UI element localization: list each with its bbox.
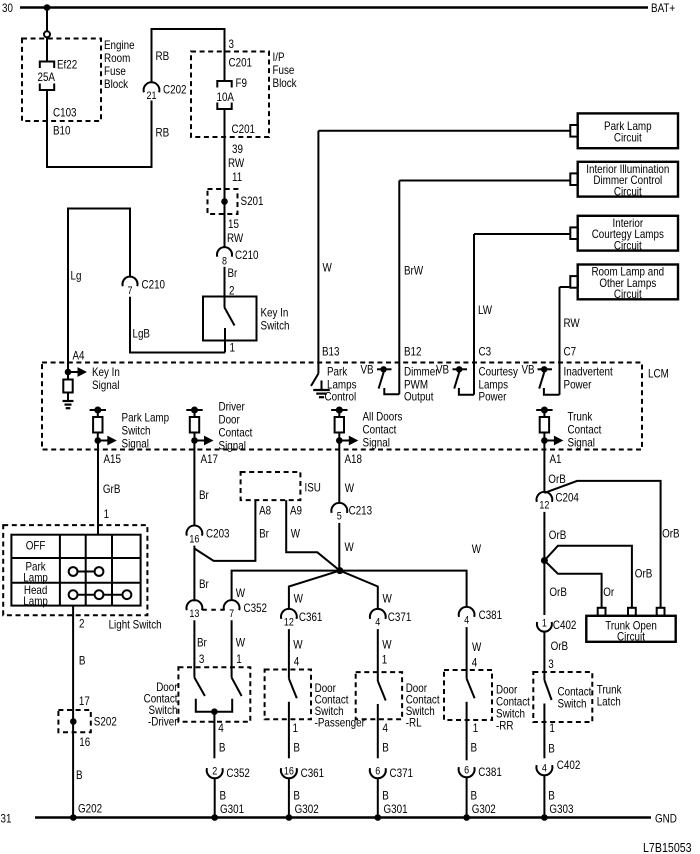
svg-text:Circuit: Circuit	[614, 287, 642, 301]
wire node to C352-7	[232, 571, 340, 601]
label 1 trunk	[549, 721, 555, 735]
svg-text:C201: C201	[229, 56, 253, 70]
svg-text:16: 16	[189, 533, 199, 545]
connector C381 pin 6	[459, 765, 475, 778]
label Park Lamps Control	[325, 365, 357, 404]
svg-text:C210: C210	[142, 278, 166, 292]
splice S201 junction	[221, 198, 228, 205]
node park lamp switch signal	[95, 437, 102, 444]
label Br driver	[197, 636, 207, 650]
label C210 right	[235, 248, 259, 262]
svg-text:GrB: GrB	[103, 482, 121, 496]
svg-text:Contact: Contact	[363, 423, 397, 437]
svg-text:W: W	[293, 638, 303, 652]
label W rl	[382, 638, 392, 652]
svg-text:W: W	[291, 527, 301, 541]
switch blade driver right	[232, 678, 242, 697]
block trunk open circuit	[586, 608, 675, 644]
svg-text:B12: B12	[404, 345, 422, 359]
svg-text:S202: S202	[94, 715, 117, 729]
svg-text:B: B	[76, 768, 83, 782]
svg-text:25A: 25A	[38, 70, 56, 84]
svg-text:C210: C210	[235, 248, 259, 262]
label Park Lamp row	[23, 560, 48, 585]
svg-text:2: 2	[79, 617, 85, 631]
svg-text:Fuse: Fuse	[273, 63, 295, 77]
wire to node A17	[194, 433, 196, 441]
svg-text:VB: VB	[436, 363, 449, 377]
wire C352-2 to G301	[214, 778, 216, 817]
label LCM	[648, 367, 669, 381]
label 3 driver	[199, 652, 205, 666]
light switch head contacts	[69, 590, 132, 599]
key in switch pin2 stub	[224, 297, 226, 308]
door contact switch RR box	[444, 670, 492, 720]
svg-text:I/P: I/P	[273, 50, 285, 64]
label Lg	[71, 269, 82, 283]
label C201 lower	[232, 122, 256, 136]
svg-text:1: 1	[382, 653, 388, 667]
svg-text:21: 21	[147, 90, 157, 102]
svg-text:Dimmer: Dimmer	[404, 365, 439, 379]
svg-text:C203: C203	[206, 527, 230, 541]
wire into fuse Ef22	[46, 37, 48, 61]
wire C3 bracket	[459, 388, 474, 395]
svg-text:C3: C3	[479, 345, 492, 359]
svg-text:OrB: OrB	[548, 472, 566, 486]
svg-text:B: B	[219, 741, 226, 755]
wire C402 to G303	[543, 775, 545, 817]
label VB c7	[522, 363, 535, 377]
svg-text:G202: G202	[78, 802, 102, 816]
connector C352 link	[202, 609, 224, 611]
svg-text:LCM: LCM	[648, 367, 669, 381]
wire B13 park lamps control	[318, 131, 570, 374]
vb feed c7	[538, 366, 553, 372]
label 1 passenger	[293, 721, 299, 735]
svg-text:OrB: OrB	[662, 527, 680, 541]
label 4 passenger	[294, 655, 300, 669]
svg-text:W: W	[383, 592, 393, 606]
wire B10 down and right	[47, 90, 152, 167]
wire trunk contact	[543, 704, 545, 759]
label 39	[232, 142, 243, 156]
svg-text:1: 1	[230, 341, 236, 355]
svg-text:Room: Room	[104, 51, 130, 65]
svg-text:12: 12	[539, 500, 549, 512]
label G302 passenger	[295, 802, 319, 816]
wire to node A1	[543, 433, 545, 441]
svg-text:All Doors: All Doors	[363, 410, 403, 424]
label Contact Switch	[558, 685, 592, 711]
svg-text:VB: VB	[361, 363, 374, 377]
ground key in	[63, 393, 74, 409]
svg-text:4: 4	[375, 617, 380, 629]
label ISU	[305, 481, 321, 495]
label B rr lower	[471, 789, 478, 803]
svg-text:A17: A17	[201, 452, 219, 466]
label RW upper	[228, 156, 245, 170]
svg-text:W: W	[323, 261, 333, 275]
label W c381 upper	[472, 542, 482, 556]
wire light switch to S202	[72, 606, 74, 818]
svg-text:C371: C371	[390, 766, 414, 780]
svg-text:Output: Output	[404, 390, 434, 404]
wire top bracket	[152, 29, 225, 83]
svg-text:Courtesy: Courtesy	[479, 365, 518, 379]
fuse Ef22 25A	[40, 62, 54, 91]
label C203	[206, 527, 230, 541]
node all doors contact signal	[336, 437, 343, 444]
label W driver	[236, 636, 246, 650]
svg-text:1: 1	[542, 618, 547, 630]
connector C402 pin 1	[537, 618, 552, 632]
label C402 upper	[553, 618, 577, 632]
svg-text:G302: G302	[472, 802, 496, 816]
label C7	[564, 345, 577, 359]
label B trunk upper	[548, 742, 555, 756]
svg-text:B: B	[220, 789, 227, 803]
wire node to C381	[340, 571, 467, 607]
connector C371 pin 6	[370, 766, 386, 779]
svg-text:G301: G301	[220, 802, 244, 816]
svg-text:W: W	[472, 640, 482, 654]
wire A1 to C204	[543, 441, 545, 493]
ground B13	[313, 381, 330, 398]
label G303	[549, 802, 573, 816]
svg-text:Br: Br	[228, 266, 238, 280]
light switch outer box	[3, 525, 147, 615]
svg-text:A9: A9	[290, 504, 302, 518]
label Door Contact Switch Driver	[144, 680, 178, 729]
label C361 upper	[299, 610, 323, 624]
feed trunk contact	[536, 407, 552, 418]
label Courtesy Lamps Power	[479, 365, 518, 404]
connector C210 pin 7	[123, 277, 138, 297]
svg-text:Br: Br	[199, 577, 209, 591]
feed driver door contact	[186, 407, 202, 418]
label C352 upper	[244, 601, 268, 615]
wire C213 to node	[338, 523, 340, 571]
svg-text:G302: G302	[295, 802, 319, 816]
label RW right	[564, 316, 581, 330]
resistor key in	[63, 372, 72, 393]
wire key switch to C210-7	[130, 297, 225, 353]
switch B12 blade	[379, 372, 384, 388]
svg-text:Driver: Driver	[219, 400, 245, 414]
connector C352 pin 13	[187, 600, 203, 620]
node key in signal	[65, 369, 72, 376]
label W c371 upper	[383, 592, 393, 606]
label B rl lower	[382, 789, 389, 803]
label RB upper	[156, 49, 170, 63]
svg-text:C381: C381	[478, 765, 502, 779]
connector ring at fuse block	[44, 31, 50, 37]
label B upper left	[79, 654, 86, 668]
wire C7 inadvertent power	[560, 287, 571, 395]
label 1 driver	[236, 652, 242, 666]
svg-text:RW: RW	[228, 156, 245, 170]
label W c361 upper	[294, 592, 304, 606]
label 15	[228, 217, 239, 231]
wire C204 to trunk node	[543, 512, 545, 561]
vb feed c3	[453, 366, 468, 372]
label Trunk Contact Signal	[568, 410, 602, 450]
label 1 light switch	[104, 507, 110, 521]
svg-text:3: 3	[229, 37, 235, 51]
label B lower left	[76, 768, 83, 782]
label 25A	[38, 70, 56, 84]
label 10A	[217, 90, 235, 104]
svg-text:B: B	[548, 789, 555, 803]
label 4 rr	[472, 656, 478, 670]
wire C371 to G301	[377, 778, 379, 817]
door contact switch driver box	[178, 667, 250, 722]
svg-text:C352: C352	[226, 766, 250, 780]
label LgB	[133, 327, 151, 341]
svg-text:C103: C103	[53, 106, 77, 120]
label RW lower	[227, 231, 244, 245]
svg-text:11: 11	[232, 170, 242, 184]
wire trunk node branch 2	[544, 546, 632, 608]
label RB lower	[156, 126, 170, 140]
label A8	[259, 504, 271, 518]
svg-text:B10: B10	[53, 124, 71, 138]
label L7B15053	[643, 840, 692, 854]
svg-text:Power: Power	[479, 390, 507, 404]
svg-text:Switch: Switch	[558, 697, 587, 711]
door contact switch passenger box	[265, 670, 311, 720]
svg-text:1: 1	[104, 507, 110, 521]
svg-text:Switch: Switch	[122, 424, 151, 438]
svg-text:Fuse: Fuse	[104, 64, 126, 78]
connector C381 pin 4	[459, 607, 475, 627]
svg-text:W: W	[236, 636, 246, 650]
switch C3 blade	[454, 372, 459, 388]
resistor park lamp switch	[93, 417, 102, 433]
label Inadvertent Power	[564, 365, 614, 392]
svg-text:Control: Control	[325, 390, 357, 404]
svg-text:W: W	[345, 481, 355, 495]
node 31 ground bus	[1, 812, 652, 826]
label OrB above c402	[549, 585, 567, 599]
svg-text:B: B	[382, 789, 389, 803]
svg-text:B: B	[382, 741, 389, 755]
svg-text:4: 4	[472, 656, 478, 670]
trunk latch box	[533, 672, 592, 722]
label G301 driver	[220, 802, 244, 816]
junction driver door	[211, 708, 218, 715]
svg-text:B: B	[471, 741, 478, 755]
label C381 lower	[478, 765, 502, 779]
label Door Contact Switch RR	[496, 683, 530, 733]
svg-text:Circuit: Circuit	[614, 238, 642, 252]
key in switch contact	[224, 328, 226, 353]
arrow all doors contact signal	[339, 436, 358, 446]
resistor trunk contact	[540, 417, 549, 433]
wire C7 bracket	[544, 388, 560, 395]
svg-text:C402: C402	[557, 758, 581, 772]
block interior courtegy lamps circuit	[570, 216, 678, 253]
svg-text:LgB: LgB	[133, 327, 151, 341]
label OrB a1	[548, 472, 566, 486]
label A17	[201, 452, 219, 466]
wire branch to ISU A8	[194, 500, 255, 561]
wire C210-7 up and left to A4	[68, 209, 130, 363]
node trunk contact signal	[541, 437, 548, 444]
label OFF	[26, 539, 46, 553]
resistor all doors contact	[335, 417, 344, 433]
svg-text:6: 6	[375, 766, 380, 778]
light switch park contacts	[69, 567, 104, 576]
svg-text:Block: Block	[104, 77, 129, 91]
wire C371 to RL door	[377, 629, 379, 681]
svg-text:3: 3	[199, 652, 205, 666]
svg-text:-RL: -RL	[406, 716, 422, 730]
label Trunk Latch	[597, 683, 623, 709]
wire C204 branch to trunk open	[544, 481, 660, 608]
svg-text:LW: LW	[478, 303, 493, 317]
svg-text:Signal: Signal	[363, 436, 390, 450]
svg-text:BrW: BrW	[404, 264, 424, 278]
svg-text:Contact: Contact	[568, 423, 602, 437]
label C361 lower	[301, 766, 325, 780]
svg-text:16: 16	[284, 766, 294, 778]
wire B12 bracket	[384, 388, 399, 394]
node all doors distribution	[336, 567, 343, 574]
svg-text:17: 17	[79, 694, 90, 708]
svg-text:4: 4	[542, 763, 547, 775]
svg-text:L7B15053: L7B15053	[643, 840, 692, 854]
label OrB below c402	[551, 639, 569, 653]
svg-text:Inadvertent: Inadvertent	[564, 365, 614, 379]
label GrB	[103, 482, 121, 496]
junction G302 passenger	[286, 814, 293, 821]
label A4	[73, 349, 85, 363]
svg-text:G301: G301	[384, 802, 408, 816]
label B driver upper	[219, 741, 226, 755]
label Engine Room Fuse Block	[104, 38, 135, 91]
label F9	[236, 76, 248, 90]
feed all doors contact	[331, 407, 347, 418]
label Or branch 1	[603, 585, 614, 599]
svg-text:-Passenger: -Passenger	[315, 716, 365, 730]
label Head Lamp row	[23, 583, 48, 608]
svg-text:4: 4	[383, 721, 389, 735]
svg-text:5: 5	[337, 511, 342, 523]
svg-text:W: W	[382, 638, 392, 652]
splice S202 junction	[70, 718, 77, 725]
label B13	[322, 345, 340, 359]
label Ef22	[57, 58, 77, 72]
label Dimmer PWM Output	[404, 365, 439, 404]
label C3	[479, 345, 492, 359]
svg-text:F9: F9	[236, 76, 248, 90]
arrow park lamp switch signal	[98, 436, 117, 446]
connector C203 pin 16	[187, 526, 203, 546]
label C210 left	[142, 278, 166, 292]
wire passenger contact	[288, 702, 290, 759]
label B12	[404, 345, 422, 359]
label Br a8	[259, 527, 269, 541]
wire to node A18	[338, 433, 340, 441]
svg-text:15: 15	[228, 217, 239, 231]
svg-text:C201: C201	[232, 122, 256, 136]
label OrB mid	[549, 528, 567, 542]
connector C210 pin 8	[217, 247, 232, 267]
svg-text:Door: Door	[219, 413, 240, 427]
svg-text:-Driver: -Driver	[148, 715, 178, 729]
label Park Lamp Switch Signal	[122, 411, 170, 451]
svg-text:A15: A15	[104, 452, 122, 466]
svg-text:W: W	[345, 540, 355, 554]
wire A15 to light switch	[97, 441, 99, 535]
svg-text:BAT+: BAT+	[651, 1, 675, 15]
svg-text:RW: RW	[227, 231, 244, 245]
label LW	[478, 303, 493, 317]
svg-text:GND: GND	[655, 812, 677, 826]
svg-text:30: 30	[2, 1, 13, 15]
svg-text:Contact: Contact	[219, 426, 253, 440]
svg-text:Signal: Signal	[92, 378, 119, 392]
label W a9	[291, 527, 301, 541]
ISU box	[241, 472, 301, 500]
label OrB branch 2	[635, 567, 653, 581]
svg-text:Circuit: Circuit	[614, 184, 642, 198]
label I/P Fuse Block	[273, 50, 298, 90]
svg-text:C213: C213	[349, 504, 373, 518]
svg-text:Latch: Latch	[597, 695, 621, 709]
connector C213 pin 5	[331, 503, 347, 523]
svg-text:Park Lamp: Park Lamp	[122, 411, 170, 425]
switch blade trunk	[544, 680, 551, 700]
svg-text:A8: A8	[259, 504, 271, 518]
svg-text:Switch: Switch	[261, 319, 290, 333]
svg-text:Circuit: Circuit	[617, 630, 645, 644]
label All Doors Contact Signal	[363, 410, 403, 450]
splice S202 box	[58, 710, 90, 732]
label S201	[241, 194, 264, 208]
label 2	[229, 284, 235, 298]
label C371 upper	[388, 610, 412, 624]
block interior illumination dimmer control circuit	[570, 162, 678, 199]
label W c213	[345, 540, 355, 554]
label 3	[229, 37, 235, 51]
junction G303	[541, 814, 548, 821]
label W a18	[345, 481, 355, 495]
svg-text:OrB: OrB	[549, 528, 567, 542]
key in switch box	[203, 297, 257, 341]
node trunk distribution	[541, 557, 548, 564]
label C201 upper	[229, 56, 253, 70]
svg-text:A1: A1	[550, 452, 562, 466]
key in switch blade	[225, 308, 235, 326]
light switch table	[11, 535, 140, 606]
svg-text:B: B	[293, 741, 300, 755]
label C352 lower	[226, 766, 250, 780]
svg-text:2: 2	[212, 766, 217, 778]
svg-text:C371: C371	[388, 610, 412, 624]
label C381 upper	[479, 608, 503, 622]
connector C402 pin 4	[536, 763, 552, 776]
label A1	[550, 452, 562, 466]
svg-text:OrB: OrB	[551, 639, 569, 653]
svg-text:OFF: OFF	[26, 539, 46, 553]
svg-text:G303: G303	[549, 802, 573, 816]
svg-text:6: 6	[464, 765, 469, 777]
label C204	[555, 491, 579, 505]
label W c352-7	[236, 586, 246, 600]
